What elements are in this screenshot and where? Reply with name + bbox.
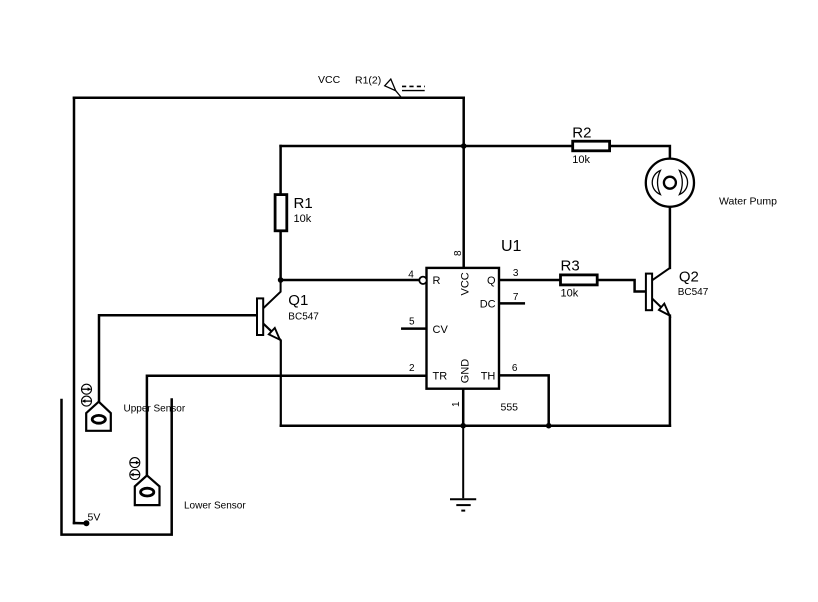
wire Q2 emitter drop — [669, 316, 672, 426]
wire upper sensor to Q1 base — [99, 315, 257, 401]
wire VCC vertical to pin 8 — [462, 98, 465, 268]
svg-text:8: 8 — [453, 250, 464, 256]
svg-text:1: 1 — [451, 401, 462, 407]
wire bottom emitter bus — [281, 424, 670, 427]
wire node to pin 4 — [281, 279, 420, 282]
svg-text:10k: 10k — [572, 154, 590, 166]
svg-text:3: 3 — [513, 268, 519, 279]
water pump M1 — [646, 159, 694, 207]
wire pin 1 to ground bus — [462, 389, 465, 426]
svg-text:10k: 10k — [294, 213, 312, 225]
svg-text:Lower Sensor: Lower Sensor — [184, 501, 246, 512]
wire tank outline — [62, 400, 172, 535]
wire pin 5 stub — [402, 327, 426, 330]
svg-text:7: 7 — [513, 292, 519, 303]
svg-text:6: 6 — [512, 363, 518, 374]
wire VCC top bus — [74, 97, 464, 100]
wire R1 top — [279, 146, 282, 195]
svg-text:R2: R2 — [572, 125, 591, 142]
probe VCC R1(2) — [385, 79, 425, 98]
upper sensor — [82, 384, 111, 431]
resistor R2 — [572, 125, 609, 167]
svg-text:TH: TH — [481, 370, 496, 382]
resistor R3 — [561, 258, 598, 300]
ground — [450, 426, 476, 511]
node R1/Q1 collector junction — [278, 277, 284, 283]
svg-text:R1: R1 — [294, 195, 313, 212]
svg-text:R3: R3 — [561, 258, 580, 275]
svg-text:Q: Q — [487, 275, 496, 287]
svg-text:5: 5 — [409, 317, 415, 328]
svg-text:10k: 10k — [561, 288, 579, 300]
wire pump to Q2 collector — [669, 207, 672, 268]
node VCC junction — [461, 143, 467, 149]
svg-text:R1(2): R1(2) — [355, 75, 381, 87]
transistor Q2 — [646, 268, 670, 316]
transistor Q1 — [257, 280, 281, 426]
wire 5V left drop — [73, 98, 76, 523]
svg-text:DC: DC — [480, 298, 496, 310]
wire VCC distribution bus — [281, 145, 573, 148]
wire pin 3 to R3 — [499, 279, 561, 282]
wire lower sensor to pin 2 TR — [147, 376, 427, 476]
wire R2 to pump — [610, 146, 670, 159]
wire pin 6 threshold — [499, 375, 549, 425]
svg-text:Water Pump: Water Pump — [719, 196, 777, 208]
svg-text:555: 555 — [501, 402, 519, 414]
lower sensor — [130, 458, 160, 506]
svg-text:Q2: Q2 — [679, 269, 699, 286]
svg-text:CV: CV — [433, 324, 449, 336]
svg-text:TR: TR — [433, 370, 448, 382]
svg-text:4: 4 — [408, 269, 414, 280]
svg-text:5V: 5V — [88, 512, 101, 524]
svg-text:VCC: VCC — [318, 74, 341, 86]
svg-text:BC547: BC547 — [288, 312, 319, 323]
svg-text:Q1: Q1 — [288, 292, 308, 309]
resistor R1 — [275, 195, 313, 231]
wire pin 7 stub — [499, 302, 524, 305]
svg-text:GND: GND — [460, 359, 472, 384]
wire R1 bottom — [279, 231, 282, 280]
wire 5V stub — [74, 522, 86, 525]
svg-text:U1: U1 — [501, 238, 522, 255]
wire R3 to Q2 base — [597, 280, 646, 292]
svg-text:Upper Sensor: Upper Sensor — [124, 404, 186, 415]
pin 4 bubble — [419, 277, 426, 284]
node threshold junction — [546, 423, 552, 429]
node 5V terminal — [83, 520, 89, 526]
svg-text:2: 2 — [409, 363, 415, 374]
op-amp U1 555 timer body — [408, 238, 521, 414]
svg-text:R: R — [433, 275, 441, 287]
node ground junction — [460, 423, 466, 429]
svg-text:BC547: BC547 — [678, 287, 709, 298]
svg-text:VCC: VCC — [460, 272, 472, 295]
